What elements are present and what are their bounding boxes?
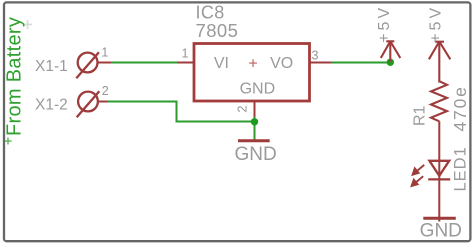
svg-text:R1: R1 [412, 105, 429, 126]
IC pin 3 stub [310, 62, 332, 64]
svg-text:X1-1: X1-1 [35, 58, 68, 75]
wire resistor to LED [438, 121, 440, 161]
wire X1-2 to gnd junction [108, 102, 255, 122]
svg-text:470e: 470e [450, 85, 470, 131]
junction dot +5V [387, 59, 394, 66]
pin stub X1-2 [97, 101, 109, 103]
IC pin 2 stub [254, 101, 256, 118]
origin cross of label [5, 138, 12, 145]
wire VO to +5V junction [331, 62, 390, 64]
svg-text:+5V: +5V [427, 5, 444, 43]
ground symbol GND (right) [423, 217, 456, 220]
junction dot under IC [251, 118, 258, 125]
svg-text:1: 1 [182, 47, 189, 61]
svg-text:2: 2 [236, 106, 250, 113]
svg-text:VO: VO [270, 55, 293, 72]
wire LED to ground [438, 161, 440, 222]
svg-text:GND: GND [240, 81, 276, 98]
wire pin2 to ground [254, 117, 256, 142]
svg-text:+5V: +5V [376, 5, 393, 43]
svg-text:GND: GND [234, 144, 276, 165]
LED LED1 [428, 161, 450, 180]
wire X1-1 to IC pin1 [111, 62, 178, 64]
svg-text:VI: VI [214, 55, 229, 72]
svg-text:LED1: LED1 [452, 146, 470, 191]
ground symbol GND (middle) [238, 139, 270, 142]
connector X1-1 [76, 52, 99, 78]
svg-text:3: 3 [312, 49, 319, 63]
svg-text:+: + [248, 56, 257, 73]
connector X1-2 [77, 91, 100, 117]
svg-text:X1-2: X1-2 [35, 97, 68, 114]
IC pin 1 stub [177, 62, 194, 64]
svg-text:7805: 7805 [196, 20, 239, 41]
resistor R1 [431, 81, 447, 121]
LED light arrows [412, 165, 425, 186]
supply symbol +5V (left arrow) [381, 41, 401, 62]
svg-text:1: 1 [101, 46, 108, 60]
svg-text:From Battery: From Battery [4, 17, 26, 136]
voltage regulator IC8 body [194, 44, 310, 102]
svg-text:2: 2 [102, 84, 109, 98]
supply symbol +5V (right arrow) [429, 42, 450, 83]
grid cross [23, 20, 32, 29]
svg-text:GND: GND [420, 221, 462, 242]
pin stub X1-1 [97, 62, 112, 64]
